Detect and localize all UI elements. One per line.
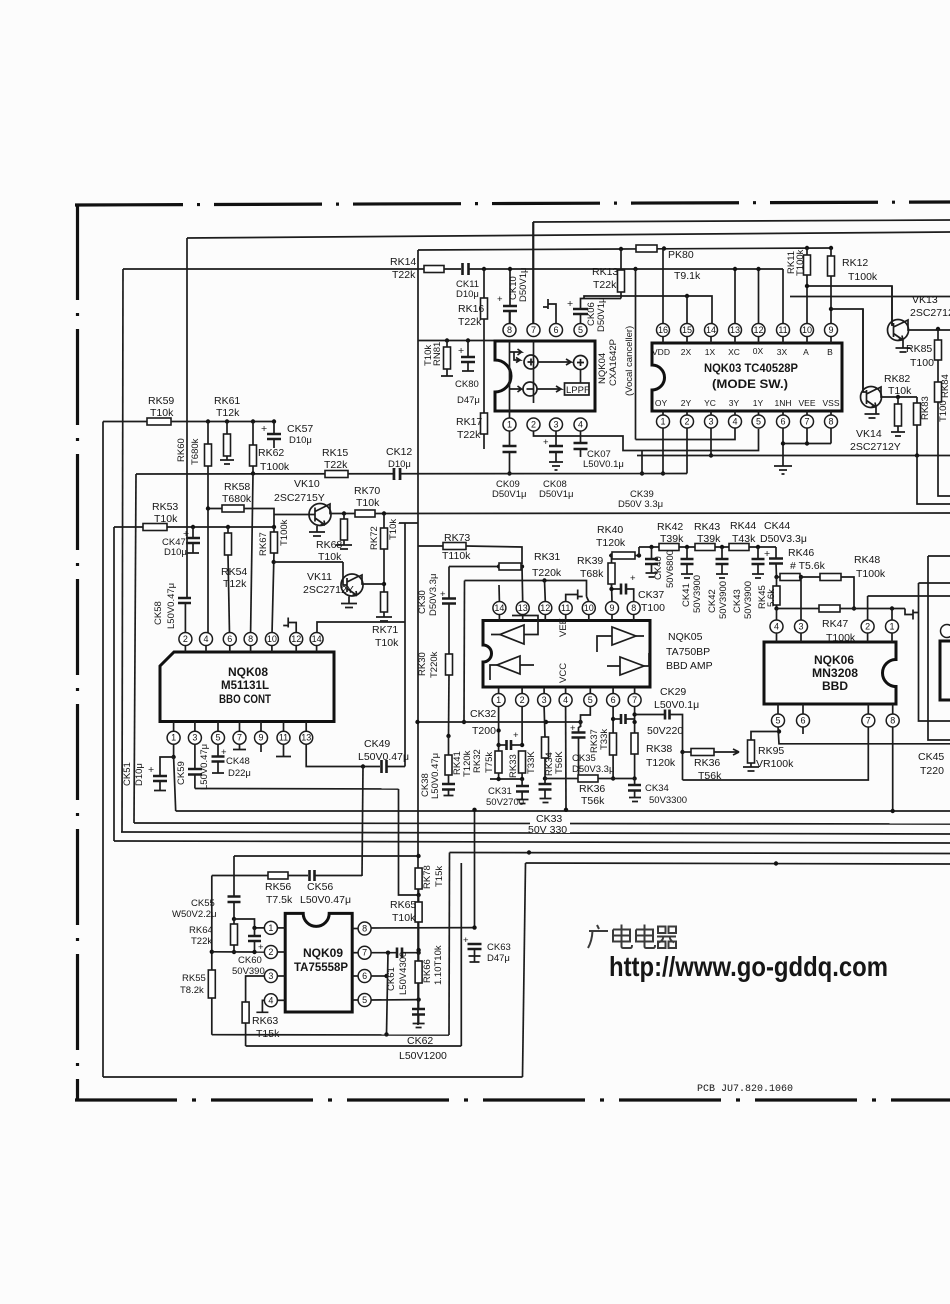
svg-text:RK42: RK42: [657, 521, 683, 533]
svg-text:RK63: RK63: [252, 1015, 278, 1027]
pin 13 NQK05: [516, 602, 529, 615]
wire riser x=449.5: [448, 853, 451, 1036]
svg-text:50V6800: 50V6800: [665, 550, 676, 588]
svg-text:CK59: CK59: [176, 761, 187, 785]
svg-text:RK54: RK54: [221, 566, 247, 578]
svg-text:3: 3: [268, 971, 273, 981]
IC NQK08 M51131L box: [160, 652, 334, 722]
svg-text:BBD: BBD: [822, 679, 848, 693]
svg-text:T10k: T10k: [423, 345, 434, 366]
svg-text:VEE: VEE: [558, 618, 569, 637]
svg-text:LPPF: LPPF: [566, 385, 590, 396]
resistor RK37: [610, 733, 617, 755]
wire pin1 node: [173, 744, 175, 757]
svg-text:RK40: RK40: [597, 524, 623, 536]
pin 5 NQK06: [772, 714, 785, 727]
svg-text:4: 4: [268, 995, 273, 1005]
svg-text:6: 6: [227, 634, 232, 644]
svg-text:VK13: VK13: [912, 294, 938, 306]
svg-text:2: 2: [684, 417, 689, 427]
svg-text:2: 2: [183, 634, 188, 644]
svg-text:9: 9: [609, 603, 614, 613]
svg-text:BBD AMP: BBD AMP: [666, 660, 713, 672]
svg-text:D50V3.3μ: D50V3.3μ: [572, 764, 614, 775]
pin 6 bottom: [777, 415, 790, 428]
pin 7 NQK05 bottom: [628, 694, 641, 707]
wire bus y=833: [121, 832, 950, 834]
pin 12 NQK05: [539, 602, 552, 615]
svg-text:CXA1642P: CXA1642P: [608, 339, 619, 386]
svg-text:TA75558P: TA75558P: [294, 960, 348, 974]
svg-text:NQK06: NQK06: [814, 653, 854, 667]
wire pin1 bottom riser: [662, 428, 664, 474]
wire riser x=405 pin14 net: [404, 523, 406, 767]
svg-text:CK31: CK31: [488, 786, 512, 797]
wire RK46 net y=577: [777, 576, 781, 578]
svg-text:T120k: T120k: [596, 537, 626, 549]
wire y=296 to pin14: [584, 296, 712, 323]
svg-text:BBO CONT: BBO CONT: [219, 692, 272, 706]
svg-text:T220: T220: [920, 765, 944, 777]
svg-text:12: 12: [753, 325, 763, 335]
svg-text:RK62: RK62: [258, 447, 284, 459]
wire VK14 collector to RK82: [878, 387, 917, 397]
svg-text:7: 7: [866, 716, 871, 726]
svg-text:CK44: CK44: [764, 520, 790, 532]
wire bus y=823: [134, 823, 950, 824]
resistor RK70: [355, 510, 375, 517]
capacitor CK30 polarized: [448, 567, 450, 599]
svg-text:D50V1μ: D50V1μ: [518, 267, 529, 302]
pin 10 NQK05: [582, 602, 595, 615]
svg-text:RK31: RK31: [534, 551, 560, 563]
svg-text:CK62: CK62: [407, 1035, 433, 1047]
svg-text:RK70: RK70: [354, 485, 380, 497]
svg-text:RK47: RK47: [822, 618, 848, 630]
wire RK73 net y=547: [418, 545, 443, 547]
resistor RK47: [777, 608, 820, 610]
svg-text:6: 6: [780, 417, 785, 427]
pin 1 NQK05 bottom: [492, 694, 505, 707]
svg-text:T120k: T120k: [646, 757, 676, 769]
capacitor CK07: [580, 431, 582, 443]
resistor RK31: [499, 563, 521, 570]
resistor RK42: [659, 544, 679, 551]
svg-text:16: 16: [658, 325, 668, 335]
svg-text:RK17: RK17: [456, 416, 482, 428]
capacitor CK29: [621, 714, 626, 724]
pin 16: [657, 324, 670, 337]
svg-text:+: +: [261, 423, 267, 435]
pin 7 NQK09: [358, 946, 371, 959]
wire RK40 net: [609, 553, 613, 557]
svg-text:13: 13: [301, 733, 311, 743]
internal wiring NQK04: [509, 341, 511, 418]
svg-text:5: 5: [215, 733, 220, 743]
resistor RK43: [695, 544, 715, 551]
wire RK83 down to right edge: [917, 456, 950, 505]
wire left riser x=114: [113, 527, 115, 841]
svg-text:RK38: RK38: [646, 743, 672, 755]
svg-text:D50V3.3μ: D50V3.3μ: [428, 574, 439, 616]
capacitor CK34: [634, 779, 636, 786]
svg-text:6: 6: [553, 325, 558, 335]
resistor RK11: [806, 248, 808, 255]
resistor RK84: [937, 360, 939, 382]
ground VK13 emitter: [896, 340, 911, 352]
pin stubs bottom NQK03: [663, 411, 831, 415]
capacitor CK10 with +: [509, 269, 511, 306]
wire pin13 riser: [734, 269, 736, 323]
pin 12 top: [290, 633, 303, 646]
resistor RK53: [143, 524, 167, 531]
svg-text:D50V3.3μ: D50V3.3μ: [760, 533, 807, 545]
svg-text:5.6k: 5.6k: [766, 589, 777, 607]
svg-text:7: 7: [804, 417, 809, 427]
wire RK59 net y=421: [103, 421, 274, 423]
wire node line y=340.5: [418, 340, 495, 342]
svg-text:50V220: 50V220: [647, 725, 683, 737]
svg-text:CK63: CK63: [487, 942, 511, 953]
resistor RK59: [147, 418, 171, 425]
potentiometer RK95: [748, 740, 755, 763]
resistor RK15: [325, 471, 348, 478]
svg-text:(MODE SW.): (MODE SW.): [712, 377, 788, 391]
border frame left (dash-dot): [76, 204, 79, 1101]
op-amp internal - circle: [523, 382, 537, 396]
svg-text:RK30: RK30: [417, 652, 428, 676]
svg-text:7: 7: [237, 733, 242, 743]
resistor RK16: [483, 269, 485, 298]
svg-text:RK48: RK48: [854, 554, 880, 566]
wire CK32 T200 net y=722: [418, 721, 581, 723]
pin 7 NQK04: [527, 324, 540, 337]
resistor RK17: [483, 341, 485, 413]
node RK16 top: [482, 267, 486, 271]
pin 14: [705, 324, 718, 337]
svg-text:A: A: [803, 347, 809, 357]
capacitor CK43: [757, 547, 759, 559]
wire VK10 collector y=514: [327, 504, 355, 514]
resistor RK72: [382, 511, 386, 515]
ground VK11 emitter: [341, 597, 357, 608]
pin 13 bottom: [305, 722, 307, 732]
svg-text:RK66: RK66: [422, 959, 433, 983]
capacitor below RK34: [544, 779, 546, 785]
svg-text:MN3208: MN3208: [812, 666, 858, 680]
op-amp triangle upper-right: [612, 627, 636, 645]
wire pin3 to RK63: [246, 976, 265, 1002]
svg-text:RK12: RK12: [842, 257, 868, 269]
svg-text:RK85: RK85: [906, 343, 932, 355]
wire CK55 chain x=234: [233, 856, 235, 896]
wire pin9 branch to VK14: [831, 309, 863, 392]
svg-text:7: 7: [531, 325, 536, 335]
svg-text:D10μ: D10μ: [456, 289, 479, 300]
svg-text:11: 11: [561, 603, 570, 613]
pin 8 bottom: [825, 415, 838, 428]
svg-text:5: 5: [775, 716, 780, 726]
resistor RK56: [268, 872, 288, 879]
svg-text:5: 5: [578, 325, 583, 335]
op-amp block NQK04 CXA1642P box: [495, 341, 595, 411]
svg-text:L50V0.1μ: L50V0.1μ: [583, 459, 624, 470]
svg-text:CK34: CK34: [645, 783, 669, 794]
svg-text:CK37: CK37: [638, 589, 664, 601]
svg-text:11: 11: [778, 325, 787, 335]
pin 9: [825, 324, 838, 337]
wire bus y=842: [114, 841, 950, 843]
pin circle right sliver: [941, 625, 950, 638]
capacitor CK38: [442, 784, 455, 790]
svg-text:3: 3: [192, 733, 197, 743]
svg-text:RK73: RK73: [444, 532, 470, 544]
resistor RK63: [242, 1002, 249, 1023]
transistor VK11: [341, 574, 363, 596]
pin 4 bottom: [729, 415, 742, 428]
capacitor CK42: [721, 547, 723, 559]
pulse symbol pin4: [256, 1000, 268, 1012]
svg-text:T100k: T100k: [856, 568, 886, 580]
resistor RK34: [542, 737, 549, 758]
svg-text:12: 12: [540, 603, 550, 613]
pin 5 NQK05 bottom: [584, 694, 597, 707]
svg-text:M51131L: M51131L: [221, 678, 269, 692]
svg-text:CK45: CK45: [918, 751, 944, 763]
resistor RK44: [729, 544, 749, 551]
border frame top (dash-dot): [75, 202, 950, 205]
svg-text:T10k: T10k: [375, 637, 399, 649]
svg-text:T22k: T22k: [392, 269, 416, 281]
svg-text:T220k: T220k: [532, 567, 562, 579]
svg-text:RK16: RK16: [458, 303, 484, 315]
pin 10 top: [265, 633, 278, 646]
svg-text:T68k: T68k: [580, 568, 604, 580]
resistor PK80: [636, 245, 657, 252]
svg-text:50V3300: 50V3300: [649, 795, 687, 806]
svg-text:NQK04: NQK04: [597, 353, 608, 384]
resistor RK58: [222, 505, 244, 512]
pin 4 NQK04: [574, 418, 587, 431]
pulse symbol pin11: [566, 590, 583, 602]
svg-text:RK84: RK84: [940, 374, 950, 398]
svg-text:RK46: RK46: [788, 547, 814, 559]
svg-text:D10μ: D10μ: [388, 459, 411, 470]
pin 9 bottom: [260, 722, 262, 732]
node RK60: [206, 419, 210, 423]
capacitor 50V220: [635, 714, 664, 716]
resistor RK85: [937, 329, 939, 340]
svg-text:NQK03 TC40528P: NQK03 TC40528P: [704, 361, 798, 375]
wire RK58 net: [208, 509, 274, 528]
svg-text:T10k: T10k: [150, 407, 174, 419]
svg-text:T9.1k: T9.1k: [674, 270, 701, 282]
pin 3 bottom: [705, 415, 718, 428]
wire pin3 riser to long line: [710, 428, 712, 456]
pin 1 NQK04: [503, 418, 516, 431]
svg-text:VK11: VK11: [307, 571, 332, 583]
svg-text:2SC2712Y: 2SC2712Y: [910, 307, 950, 319]
pin 8 NQK05: [627, 602, 640, 615]
resistor RK67: [273, 527, 275, 532]
resistor RK32: [498, 745, 500, 751]
resistor RK13: [620, 249, 622, 270]
svg-text:2: 2: [531, 420, 536, 430]
svg-text:TA750BP: TA750BP: [666, 646, 710, 658]
op-amp internal + circle 2: [574, 356, 588, 370]
wire RK55 riser x=212: [211, 876, 213, 1035]
svg-text:CK35: CK35: [572, 753, 596, 764]
svg-text:1.10T10k: 1.10T10k: [433, 945, 444, 985]
resistor RK71: [381, 592, 388, 612]
svg-text:D50V 3.3μ: D50V 3.3μ: [618, 499, 663, 510]
transistor VK14: [861, 387, 882, 408]
resistor RK39: [611, 584, 614, 602]
wire pin8 riser down: [892, 727, 894, 811]
wire rect left edge x=123: [122, 269, 123, 832]
svg-text:RK60: RK60: [176, 438, 187, 462]
svg-text:T15k: T15k: [434, 866, 445, 887]
svg-text:T8.2k: T8.2k: [180, 985, 204, 996]
resistor RK40: [612, 552, 635, 559]
svg-text:1: 1: [268, 923, 273, 933]
op-amp triangle lower-left: [497, 656, 520, 674]
svg-text:RK68: RK68: [316, 539, 342, 551]
pin 2 top: [179, 633, 192, 646]
pin 4 NQK06: [770, 620, 783, 633]
resistor RK83: [916, 397, 918, 403]
svg-text:L50V0.47μ: L50V0.47μ: [166, 583, 177, 629]
wire section top y=250: [418, 249, 621, 250]
svg-text:RK36: RK36: [694, 757, 720, 769]
pin 14 top: [310, 633, 323, 646]
wire pin6 net: [371, 975, 386, 977]
wire riser x=464.5: [463, 581, 466, 723]
svg-text:(Vocal canceller): (Vocal canceller): [624, 326, 635, 396]
capacitor CK56: [310, 870, 315, 881]
wire y=296 right segment: [790, 296, 950, 298]
svg-text:3Y: 3Y: [729, 398, 740, 408]
svg-text:D50V1μ: D50V1μ: [539, 489, 574, 500]
svg-text:T22k: T22k: [457, 429, 481, 441]
svg-text:VR100k: VR100k: [756, 758, 794, 770]
IC NQK09 TA75558P box: [285, 913, 352, 1012]
wire riser x=363 to NQK09 box: [362, 767, 363, 877]
pin 8 top: [244, 633, 257, 646]
svg-text:10: 10: [802, 325, 812, 335]
wire VK11 collector: [359, 575, 384, 584]
pin 12: [752, 324, 765, 337]
svg-text:CK40: CK40: [653, 556, 664, 580]
svg-text:CK41: CK41: [681, 583, 692, 607]
outer box bottom y=1077: [103, 1076, 523, 1078]
resistor RK78: [415, 868, 422, 889]
wire bus y=811: [176, 810, 950, 812]
svg-text:1: 1: [171, 733, 176, 743]
pin 2 NQK05 bottom: [516, 694, 529, 707]
svg-text:10: 10: [584, 603, 594, 613]
pin 8 NQK09: [358, 922, 371, 935]
svg-text:RK64: RK64: [189, 925, 213, 936]
svg-text:T75k: T75k: [484, 752, 495, 773]
svg-text:L50V4300: L50V4300: [398, 952, 409, 995]
svg-text:T100k: T100k: [795, 249, 806, 276]
svg-text:CK56: CK56: [307, 881, 333, 893]
svg-text:1NH: 1NH: [774, 398, 791, 408]
svg-text:NQK05: NQK05: [668, 631, 703, 643]
svg-text:50V3900: 50V3900: [692, 575, 703, 613]
capacitor CK62 line y=1046: [246, 1045, 462, 1047]
svg-text:13: 13: [518, 603, 528, 613]
LPPF box: [565, 383, 590, 395]
pin 11 bottom: [283, 722, 285, 732]
svg-text:W50V2.2μ: W50V2.2μ: [172, 909, 217, 920]
svg-text:T56K: T56K: [554, 751, 565, 774]
svg-text:RK15: RK15: [322, 447, 348, 459]
svg-text:T100k: T100k: [279, 519, 290, 546]
transistor VK10: [309, 504, 331, 526]
svg-text:+: +: [630, 573, 636, 584]
pin 8 NQK04: [503, 324, 516, 337]
wire CK11 to pins: [469, 268, 783, 270]
svg-text:T100k: T100k: [260, 461, 290, 473]
wire left riser x=103: [102, 422, 104, 1078]
wire riser x=682 net: [683, 751, 692, 753]
svg-text:4: 4: [774, 622, 779, 632]
svg-text:RK78: RK78: [422, 865, 433, 889]
wire pin16 riser: [662, 249, 664, 324]
ground VK14 emitter: [865, 407, 880, 418]
svg-text:RK56: RK56: [265, 881, 291, 893]
svg-text:50V 330: 50V 330: [528, 824, 567, 836]
wire pin8 net y=928: [371, 927, 474, 929]
wire x=642 riser: [641, 451, 643, 474]
svg-text:CK32: CK32: [470, 708, 496, 720]
svg-text:6: 6: [800, 716, 805, 726]
svg-text:RK67: RK67: [258, 532, 269, 556]
pin 10: [801, 324, 814, 337]
capacitor CK47 polarized: [191, 525, 195, 529]
svg-text:CK58: CK58: [153, 601, 164, 625]
svg-text:2SC2712Y: 2SC2712Y: [303, 584, 354, 596]
svg-text:5: 5: [756, 417, 761, 427]
svg-text:+: +: [513, 730, 519, 741]
pin 5 NQK04: [574, 324, 587, 337]
wire y=596 net pin2: [868, 595, 950, 597]
capacitor CK55: [228, 897, 241, 903]
svg-text:RK61: RK61: [214, 395, 240, 407]
wire VK13 collector: [905, 320, 950, 330]
svg-text:VEE: VEE: [798, 398, 815, 408]
wire box edge x=187 down to CK58: [186, 238, 188, 598]
svg-text:+: +: [148, 764, 154, 776]
svg-text:2: 2: [865, 622, 870, 632]
svg-text:T100: T100: [641, 602, 665, 614]
svg-text:8: 8: [248, 634, 253, 644]
svg-text:T10k: T10k: [154, 513, 178, 525]
svg-text:RK44: RK44: [730, 520, 756, 532]
pin 4 top: [200, 633, 213, 646]
svg-text:D50V1μ: D50V1μ: [492, 489, 527, 500]
svg-text:L50V0.47μ: L50V0.47μ: [358, 751, 409, 763]
wire pins 6-7-8 net: [783, 428, 831, 466]
resistor RK36: [578, 775, 598, 782]
wire pin3 riser NQK06: [800, 577, 802, 620]
svg-text:T100: T100: [910, 357, 934, 369]
border frame bottom (dash-dot): [75, 1098, 950, 1101]
capacitor CK58: [178, 598, 191, 603]
svg-text:T680k: T680k: [222, 493, 252, 505]
